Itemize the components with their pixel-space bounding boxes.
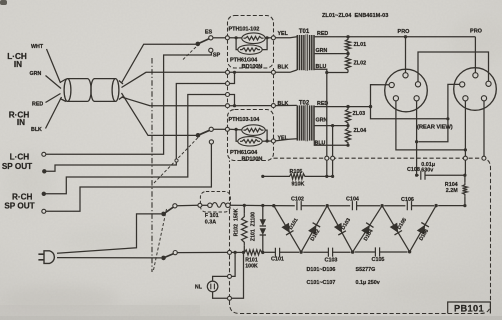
wire T02 GRN down bbox=[332, 126, 334, 157]
fuse holder dashed box bbox=[200, 192, 230, 213]
switch S1 contact ES bbox=[209, 36, 213, 40]
wire J1 bottom-left down bbox=[396, 101, 466, 150]
terminal board lamp-b bbox=[228, 296, 232, 300]
diode D101 bbox=[274, 206, 301, 252]
terminal board HV-right bbox=[482, 156, 486, 160]
terminal R-SP-OUT a bbox=[42, 192, 46, 196]
diode D103 bbox=[327, 206, 352, 252]
wire into fuse bbox=[202, 204, 208, 206]
wire mains cord upper bbox=[57, 214, 161, 253]
dashed boundary between modules left bbox=[227, 68, 229, 110]
capacitor C105 bbox=[375, 247, 379, 256]
wire S3a to fuse bbox=[177, 204, 198, 206]
wire HV into board bbox=[464, 160, 466, 175]
switch S3a contact bbox=[173, 204, 177, 208]
terminal T01 BLK bbox=[271, 70, 275, 74]
switch S3a pivot bbox=[161, 212, 166, 217]
terminal board HV-left bbox=[463, 156, 467, 160]
wire L-SP-OUT b bbox=[44, 84, 225, 172]
wire rail P4-R104 bbox=[438, 205, 465, 207]
terminal module2 left bbox=[225, 127, 229, 131]
switch linkage dashed power bbox=[154, 209, 167, 270]
wire GRN lead-in bbox=[46, 76, 62, 89]
wire module2 join bbox=[265, 130, 267, 141]
neon lamp NL bbox=[207, 281, 218, 292]
wire T02 RED bbox=[315, 106, 371, 108]
capacitor C101 bbox=[275, 248, 279, 257]
wire R-SP-OUT a bbox=[44, 95, 226, 194]
terminal board mains bbox=[228, 250, 232, 254]
switch S3b contact bbox=[173, 251, 177, 255]
linkage coupling circle bbox=[175, 159, 178, 162]
wire YEL to T02 bbox=[275, 139, 296, 141]
switch S1 contact SP bbox=[209, 48, 213, 52]
node P2 bbox=[326, 204, 329, 207]
node P4 bbox=[434, 204, 437, 207]
wire PRO left drop bbox=[405, 37, 407, 73]
wire R-SP-OUT b bbox=[46, 144, 212, 211]
transformer T02 windings bbox=[297, 105, 314, 141]
switch S3b pivot bbox=[161, 256, 166, 261]
switch S1 arm bbox=[198, 39, 210, 44]
diode D106 bbox=[410, 206, 437, 252]
terminal L-SP-OUT b bbox=[42, 169, 46, 173]
shielded cable sleeve bbox=[60, 79, 123, 102]
switch S3a arm bbox=[164, 207, 174, 214]
wire J2 mid-left down bbox=[418, 84, 459, 141]
fuse F101 bbox=[208, 203, 212, 207]
wire J2 bottom-left down bbox=[464, 101, 466, 156]
resistor R104 bbox=[464, 175, 466, 182]
thermistor PTH101 bbox=[242, 33, 265, 44]
board name PB101 bbox=[448, 302, 491, 314]
wire GRN cable to terminal bbox=[122, 72, 226, 87]
wire bracket c bbox=[230, 95, 235, 106]
wire lamp bracket bbox=[232, 252, 236, 276]
wire HV link bbox=[371, 107, 448, 119]
terminal fuse left bbox=[198, 203, 202, 207]
wire ES contact to module bbox=[213, 37, 226, 39]
wire bracket b bbox=[230, 72, 235, 83]
terminal module2 right bbox=[271, 139, 275, 143]
zener Z101 bbox=[262, 206, 264, 220]
wire BLK to T02 bbox=[230, 105, 272, 107]
diode D104 bbox=[353, 206, 383, 252]
wire S2 to module bbox=[213, 128, 225, 130]
diode D102 bbox=[301, 206, 327, 252]
terminal board GRN-2 bbox=[331, 156, 335, 160]
terminal module1 left bbox=[225, 36, 229, 40]
terminal bracket b bbox=[226, 82, 230, 86]
switch S2 arm bbox=[198, 130, 210, 135]
wire YEL to T01 bbox=[275, 37, 296, 38]
wire WHT cable to ES switch bbox=[122, 44, 197, 83]
scan edge artifacts bbox=[0, 0, 7, 5]
resistor R102 bbox=[243, 205, 245, 213]
thermistor PTH104 bbox=[238, 137, 262, 146]
surge absorber ZL03 bbox=[345, 107, 350, 126]
wire ladder top rail bbox=[244, 204, 294, 206]
switch S1 pivot bbox=[196, 42, 201, 47]
terminal module1 right bbox=[271, 36, 275, 40]
wire T02 BLU bbox=[314, 141, 348, 146]
node P3 bbox=[380, 204, 383, 207]
wire module2 branch bbox=[236, 129, 238, 141]
wire RED lead-in bbox=[46, 94, 61, 103]
wire T01 BLK to winding bbox=[275, 70, 296, 72]
dashed boundary between modules right bbox=[273, 68, 275, 110]
surge absorber ZL04 bbox=[345, 126, 350, 146]
surge absorber ZL02 bbox=[345, 54, 350, 73]
wire lamp feed bbox=[213, 276, 228, 281]
wire RED cable to R switch bbox=[122, 93, 197, 135]
capacitor C103 bbox=[328, 248, 332, 257]
wire rail to R101 bbox=[232, 251, 244, 253]
wire board drops bbox=[326, 160, 328, 176]
wire T01 GRN bbox=[315, 53, 348, 55]
node V1 bbox=[299, 250, 302, 253]
wire lamp return in-board bbox=[232, 252, 244, 298]
switch S2 contact b bbox=[209, 140, 213, 144]
wire L-SP-OUT a bbox=[46, 52, 212, 154]
wire module1 branch bbox=[236, 38, 238, 50]
terminal BLK wire bbox=[226, 104, 230, 108]
connector J1 (PRO rear view) bbox=[385, 69, 428, 112]
wire mains cord lower bbox=[57, 257, 161, 259]
thermistor PTH102 bbox=[238, 45, 262, 54]
switch S2 pivot bbox=[196, 133, 201, 138]
connector J2 (PRO rear view) bbox=[454, 68, 497, 111]
board PB101 dashed outline bbox=[230, 158, 491, 313]
terminal R-SP-OUT b bbox=[42, 209, 46, 213]
capacitor C108 bbox=[421, 171, 425, 180]
wire T02 GRN bbox=[315, 125, 348, 127]
switch S3b arm bbox=[164, 254, 174, 258]
resistor R105 bbox=[263, 175, 286, 177]
capacitor C102 bbox=[297, 201, 301, 210]
terminal board lamp-a bbox=[228, 274, 232, 278]
capacitor C106 bbox=[407, 201, 411, 210]
wire T01 BLU bbox=[315, 69, 327, 156]
wire module1 join bbox=[262, 38, 267, 50]
transformer T01 windings bbox=[297, 34, 314, 70]
module PTH101-102 dashed box bbox=[228, 16, 274, 69]
wire S3b to board bbox=[177, 251, 227, 253]
wire module2 out bbox=[262, 140, 271, 142]
wire lamp return bbox=[213, 292, 228, 299]
wire J2 bottom-right down bbox=[483, 101, 485, 156]
wire BLK cable to terminal bbox=[122, 97, 226, 106]
terminal L-SP-OUT a bbox=[42, 152, 46, 156]
surge absorber ZL01 bbox=[345, 37, 350, 54]
AC plug bbox=[38, 254, 44, 260]
capacitor C104 bbox=[352, 201, 356, 210]
wire T01 RED rail bbox=[315, 36, 476, 38]
wire rail P3-C106 bbox=[384, 205, 405, 207]
wire GRN to T01 BLK bbox=[230, 71, 272, 73]
terminal board BLU-1 bbox=[325, 156, 329, 160]
wire T02.RED to J1 mid-left bbox=[371, 85, 390, 107]
terminal T02 BLK bbox=[271, 104, 275, 108]
node V3 bbox=[408, 250, 411, 253]
wire PRO right drop bbox=[474, 37, 476, 73]
module PTH103-104 dashed box bbox=[228, 110, 274, 161]
wire module1 feed bbox=[229, 37, 241, 39]
switch S2 contact a bbox=[209, 127, 213, 131]
wire rail P2-C104 bbox=[329, 205, 350, 207]
wire ZL02 bottom tie bbox=[327, 72, 348, 74]
wire BLK lead-in bbox=[46, 97, 62, 129]
wire J1-J2 mid-right pins bbox=[418, 52, 489, 82]
terminal bracket c bbox=[226, 93, 230, 97]
chassis boundary dash-dot line bbox=[151, 58, 153, 272]
wire module2 feed bbox=[229, 128, 241, 131]
wire J1 bottom-right down bbox=[416, 101, 418, 175]
resistor R101 bbox=[243, 250, 264, 255]
wire WHT lead-in bbox=[47, 49, 61, 83]
wire T02 BLK to winding bbox=[275, 104, 296, 106]
terminal GRN wire bbox=[226, 70, 230, 74]
switch linkage dashed ES bbox=[183, 46, 198, 60]
wire module1 out bbox=[265, 37, 271, 39]
wire C108 row bbox=[417, 174, 419, 176]
node V2 bbox=[351, 250, 354, 253]
switch linkage dashed R-switch bbox=[154, 137, 199, 183]
thermistor PTH103 bbox=[242, 125, 265, 136]
wire fuse to rail bbox=[230, 204, 244, 206]
diode D105 bbox=[382, 206, 410, 252]
